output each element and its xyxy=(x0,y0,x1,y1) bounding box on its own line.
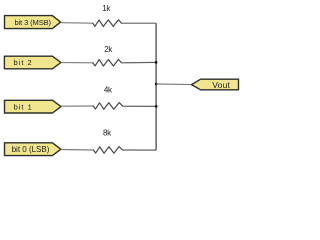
resistor 2k xyxy=(93,59,122,66)
resistor 4k xyxy=(93,103,123,110)
node bit 1 input flag xyxy=(5,100,62,113)
wire summing bus vertical xyxy=(155,23,157,150)
junction bus-R2 xyxy=(155,61,158,64)
svg-text:bit 0 (LSB): bit 0 (LSB) xyxy=(12,145,50,154)
junction bus-R3 xyxy=(155,105,158,108)
resistor 8k xyxy=(94,147,123,154)
wire R3 to bus junction xyxy=(123,105,156,107)
node Vout output flag xyxy=(192,79,239,90)
wire bit1 to R3 xyxy=(61,105,93,107)
wire R1 to bus top corner xyxy=(122,22,157,24)
svg-text:bit 1: bit 1 xyxy=(14,102,33,111)
wire bit2 to R2 xyxy=(61,62,93,64)
svg-text:1k: 1k xyxy=(102,4,111,13)
wire node to Vout flag xyxy=(156,83,191,86)
wire bit0 to R4 xyxy=(61,149,94,152)
junction bus-Vout xyxy=(155,83,158,86)
wire bit3 to R1 xyxy=(61,22,93,25)
wire R4 to bus bottom corner xyxy=(123,149,157,151)
resistor 1k xyxy=(93,20,122,27)
svg-text:4k: 4k xyxy=(104,86,113,95)
node bit 0 (LSB) input flag xyxy=(5,143,61,156)
svg-text:bit 2: bit 2 xyxy=(14,58,33,67)
svg-text:2k: 2k xyxy=(104,45,113,54)
svg-text:8k: 8k xyxy=(103,129,112,138)
node bit 3 (MSB) input flag xyxy=(5,16,61,29)
svg-text:Vout: Vout xyxy=(212,80,230,90)
svg-text:bit 3 (MSB): bit 3 (MSB) xyxy=(14,18,51,27)
wire R2 to bus junction xyxy=(122,61,157,63)
node bit 2 input flag xyxy=(4,56,61,69)
